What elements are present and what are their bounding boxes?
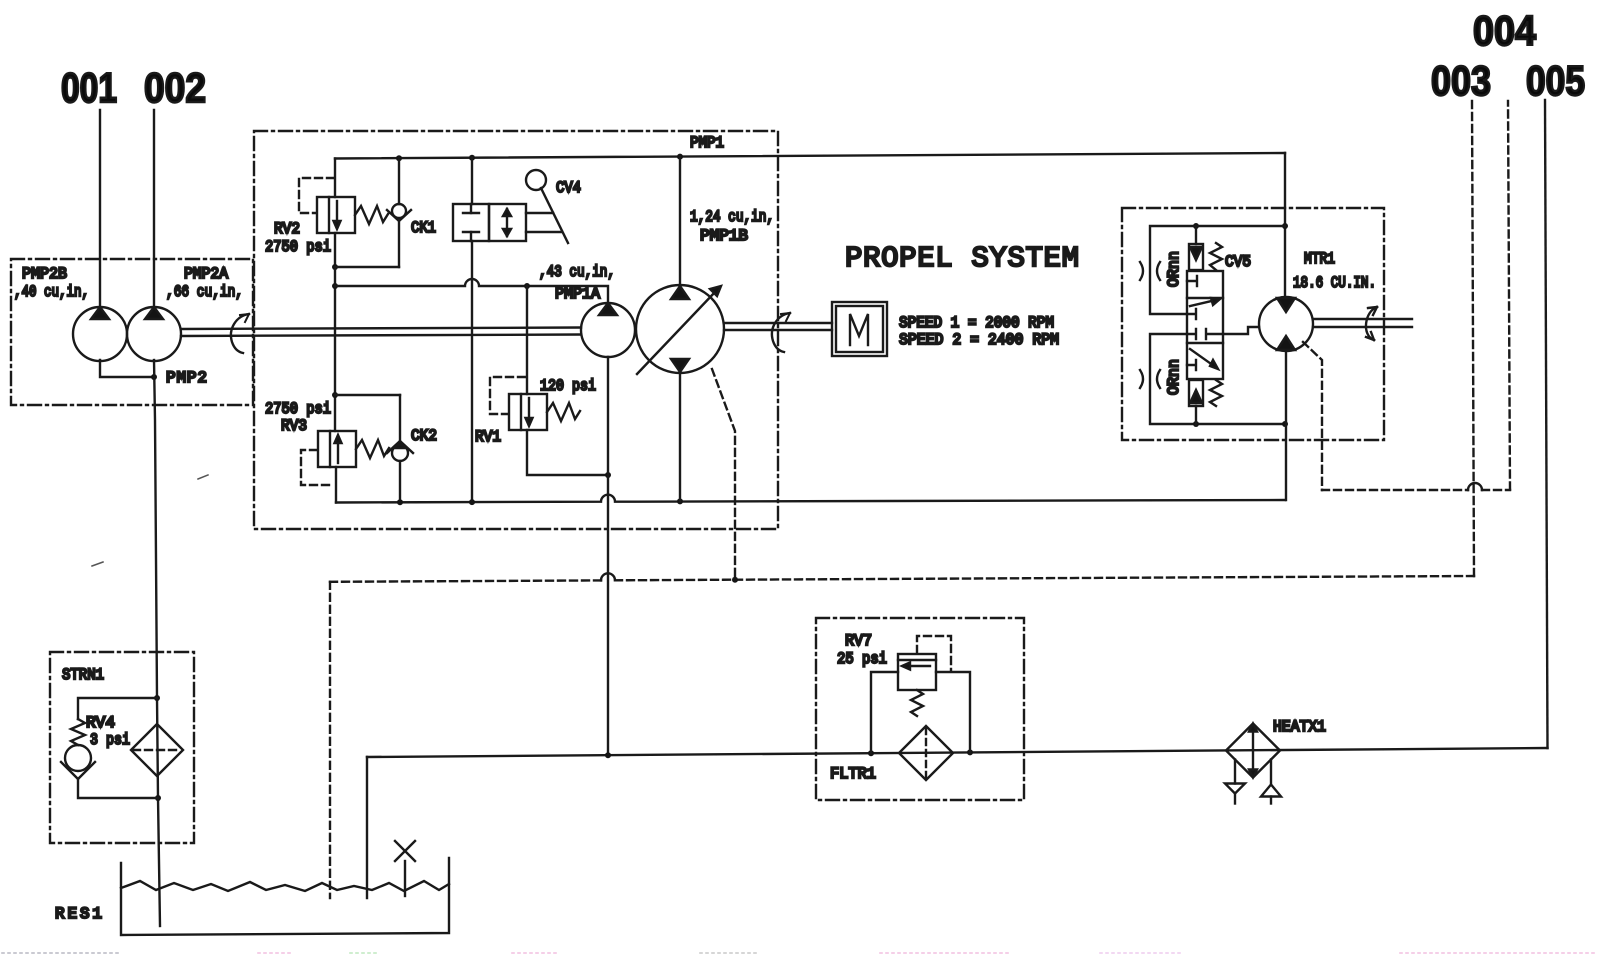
wire bottom rail with hop: [336, 495, 1285, 503]
wire ,43 cu,in, supply line with hop: [335, 279, 608, 303]
wire return line into tank: [366, 757, 368, 898]
scanner noise bottom pink dots 3: [880, 952, 1010, 954]
junction dot STRN1 top: [154, 695, 160, 701]
svg-text:RV7: RV7: [845, 632, 872, 650]
junction dot rail PMP1B: [677, 498, 683, 504]
junction dot return PMP1A drain: [605, 752, 611, 758]
scanner noise bottom pink dots 2: [512, 952, 560, 954]
valve CV5 top spring: [1210, 243, 1222, 270]
wire orifice loop lower: [1150, 334, 1285, 424]
junction dot PMP2 link: [151, 374, 157, 380]
junction dot top rail CK1: [396, 155, 402, 161]
stray scan mark 1: [198, 475, 208, 479]
wire motor feed vertical: [1284, 153, 1286, 297]
relief valve RV4 spring: [71, 719, 85, 745]
wire PMP1A drain vertical: [607, 357, 609, 755]
motor MTR1: [1259, 297, 1313, 351]
wire RV2 feed: [334, 159, 336, 198]
strainer diamond STRN1: [131, 724, 183, 776]
breather valve X symbol: [395, 841, 415, 861]
wire CK1 bottom link: [335, 266, 399, 268]
relief valve RV2 pilot dashed: [299, 178, 334, 213]
svg-text:004: 004: [1473, 7, 1537, 54]
junction dot CV5 check top: [1193, 223, 1199, 229]
scanner noise bottom pink dots 4: [1100, 952, 1180, 954]
heat exchanger left leg: [1234, 760, 1236, 784]
wire left vertical manifold: [334, 267, 336, 395]
reservoir liquid surface wavy line: [121, 881, 449, 891]
scanner noise bottom green dots: [350, 952, 380, 954]
relief valve RV3 body: [318, 431, 356, 467]
svg-text:001: 001: [61, 64, 117, 111]
valve CV5 check stem top: [1195, 226, 1197, 244]
enclosure PMP2 dash-dot box: [11, 259, 253, 405]
relief valve RV3 spring: [356, 440, 389, 458]
wire 001 line: [99, 110, 101, 308]
rotation arrow left shaft: [231, 314, 249, 353]
junction dot STRN1 bottom: [155, 795, 161, 801]
valve CV4 roller circle: [526, 170, 546, 190]
svg-text:STRN1: STRN1: [62, 666, 104, 684]
junction dot CK2 tap: [332, 392, 338, 398]
junction dot rail CK2: [397, 499, 403, 505]
valve CV5 body: [1187, 271, 1223, 379]
filter FLTR1 diamond: [899, 726, 953, 780]
svg-text:PMP1: PMP1: [690, 134, 724, 152]
pump PMP1B variable displacement: [636, 285, 724, 374]
valve CV5 check stem bottom: [1195, 406, 1197, 424]
relief valve RV7 spring: [911, 690, 923, 716]
svg-text:RV4: RV4: [86, 714, 115, 732]
enclosure MTR1 dash-dot box: [1122, 208, 1384, 440]
relief valve RV1 body: [509, 394, 547, 430]
junction dot CV5 check bottom: [1193, 421, 1199, 427]
orifice ORnn upper: [1140, 262, 1160, 280]
reservoir RES1 tank: [121, 858, 449, 935]
svg-text:18.6 CU.IN.: 18.6 CU.IN.: [1293, 274, 1376, 292]
svg-text:ORnn: ORnn: [1165, 359, 1183, 395]
wire RV2 outlet: [334, 233, 336, 267]
valve CV5 bottom check element: [1189, 380, 1203, 406]
motor shaft double line: [1313, 319, 1412, 327]
junction dot orifice loop top: [1282, 223, 1288, 229]
svg-text:PROPEL SYSTEM: PROPEL SYSTEM: [845, 242, 1079, 275]
wire PMP1B case drain dashed: [712, 369, 735, 580]
pump PMP2A: [127, 307, 181, 361]
svg-text:RV3: RV3: [281, 417, 307, 435]
heat exchanger right stem: [1270, 797, 1272, 804]
enclosure FLTR1 dash-dot box: [816, 618, 1024, 800]
check ball RV4: [65, 745, 91, 771]
wire 005 solid line: [1545, 100, 1548, 748]
wire RV7 right leg: [936, 672, 970, 752]
svg-text:PMP1A: PMP1A: [555, 285, 600, 303]
svg-text:PMP2: PMP2: [166, 369, 207, 387]
svg-text:CV5: CV5: [1225, 253, 1251, 271]
svg-text:RV2: RV2: [274, 220, 300, 238]
wire motor outlet vertical: [1285, 351, 1287, 500]
junction dot RV1 tap: [524, 283, 530, 289]
enclosure PMP1 dash-dot box: [254, 131, 778, 529]
heat exchanger right triangle up: [1261, 785, 1281, 797]
filter element dashed: [925, 728, 927, 778]
valve CV5 top check element: [1189, 244, 1203, 270]
pump PMP1A: [581, 303, 635, 357]
svg-text:HEATX1: HEATX1: [1273, 718, 1326, 736]
heat exchanger left triangle down: [1225, 784, 1245, 794]
svg-text:,66 cu,in,: ,66 cu,in,: [166, 283, 243, 301]
label M: [850, 314, 868, 345]
heat exchanger HEATX1 diamond: [1226, 724, 1280, 778]
wire PMP1B top stem: [679, 157, 681, 287]
svg-text:ORnn: ORnn: [1165, 251, 1183, 287]
junction dot orifice loop bottom: [1282, 421, 1288, 427]
wire main return line: [367, 748, 1548, 757]
wire CK1 stem bottom: [398, 221, 400, 267]
svg-text:SPEED 1 = 2000 RPM: SPEED 1 = 2000 RPM: [899, 314, 1054, 332]
wire 002 line: [153, 110, 155, 308]
wire RV3 outlet: [335, 467, 337, 503]
scanner noise bottom gray dots: [2, 952, 120, 954]
wire RV7 left leg: [871, 672, 898, 753]
wire orifice loop upper: [1150, 226, 1285, 314]
relief valve RV1 pilot dashed: [490, 377, 525, 414]
junction dot top rail CV4: [469, 155, 475, 161]
junction dot rail CV4: [469, 499, 475, 505]
heat exchanger right leg: [1270, 760, 1272, 785]
svg-text:RV1: RV1: [475, 428, 501, 446]
svg-text:SPEED 2 = 2400 RPM: SPEED 2 = 2400 RPM: [899, 331, 1059, 349]
check valve CK1: [387, 204, 411, 221]
svg-text:2750 psi: 2750 psi: [265, 238, 331, 256]
relief valve RV2 body: [317, 197, 355, 233]
rotation arrow right of PMP1B: [772, 313, 790, 352]
svg-text:CK1: CK1: [411, 219, 436, 237]
junction dot manifold at ,43 line: [332, 283, 338, 289]
svg-text:,43 cu,in,: ,43 cu,in,: [539, 263, 615, 281]
wire motor case drain dashed to 004: [1303, 101, 1510, 490]
valve CV4 actuator lines: [526, 212, 553, 214]
valve CV5 internals top cell: [1187, 276, 1197, 286]
wire manifold to RV3: [334, 395, 336, 431]
svg-text:PMP1B: PMP1B: [700, 227, 748, 245]
wire suction line to reservoir: [154, 360, 160, 926]
svg-text:1,24 cu,in,: 1,24 cu,in,: [690, 208, 774, 226]
svg-text:2750 psi: 2750 psi: [265, 400, 331, 418]
svg-text:PMP2A: PMP2A: [184, 265, 228, 283]
junction dot return filter right leg: [967, 749, 973, 755]
shaft PMP1B to motor box double line: [724, 323, 832, 330]
wire CV4 stem top: [471, 158, 473, 204]
svg-text:25 psi: 25 psi: [837, 650, 887, 668]
junction dot RV1 outlet: [605, 472, 611, 478]
svg-text:CK2: CK2: [411, 427, 437, 445]
svg-text:RES1: RES1: [55, 905, 102, 923]
scanner noise bottom pink dots 5: [1400, 952, 1595, 954]
wire PMP1B bottom stem: [679, 372, 681, 501]
svg-text:3 psi: 3 psi: [90, 731, 130, 749]
orifice ORnn lower: [1140, 370, 1160, 388]
valve CV5 internals middle arrow: [1187, 298, 1223, 339]
relief valve RV1 feed: [526, 286, 528, 394]
wire CK2 stem: [399, 395, 401, 442]
check valve CK2: [387, 441, 413, 461]
wire RV4 branch bottom: [78, 779, 158, 798]
stray scan mark 2: [92, 562, 103, 566]
strainer element dashed: [133, 749, 181, 751]
svg-text:120 psi: 120 psi: [540, 377, 596, 395]
motor box M outer: [832, 302, 887, 356]
wire CK1 stem top: [398, 158, 400, 204]
relief valve RV1 spring: [547, 403, 580, 421]
shaft PMP2A to PMP1A double line: [181, 328, 581, 337]
relief valve RV7 pilot dashed: [917, 636, 951, 671]
relief valve RV3 pilot dashed: [301, 450, 333, 485]
wire RV4 branch top: [78, 698, 157, 719]
valve CV4 body: [453, 204, 526, 241]
wire CV5 outlet step to motor: [1223, 327, 1259, 334]
junction dot top rail PMP1B: [677, 154, 683, 160]
svg-text:MTR1: MTR1: [1304, 250, 1335, 268]
pump PMP2B: [73, 307, 127, 361]
svg-text:PMP2B: PMP2B: [22, 265, 67, 283]
relief valve RV7 body: [898, 654, 936, 690]
breather stem: [404, 861, 406, 896]
relief valve RV2 spring: [355, 206, 388, 224]
wire 003 dashed line: [330, 101, 1474, 582]
wire CK2 outlet: [399, 461, 401, 502]
junction dot return filter left leg: [868, 750, 874, 756]
valve CV5 internals bottom diagonal arrow: [1187, 349, 1218, 370]
heat exchanger left stem: [1234, 794, 1236, 804]
strainer STRN1 enclosure: [50, 652, 194, 843]
svg-text:CV4: CV4: [556, 179, 581, 197]
wire PMP2B-PMP2A bottom link: [100, 360, 154, 377]
scanner noise bottom gray dots 2: [700, 952, 760, 954]
wire top rail: [335, 153, 1285, 159]
wire CV4 stem bottom: [471, 241, 473, 502]
scanner noise bottom pink dots 1: [258, 952, 292, 954]
motor box M inner: [836, 306, 883, 352]
svg-text:003: 003: [1431, 57, 1491, 104]
junction dot PMP1B drain on 003: [732, 577, 738, 583]
svg-text:005: 005: [1526, 57, 1585, 104]
check seat RV4: [61, 762, 95, 779]
wire 003 drain into tank dashed: [329, 582, 331, 898]
svg-text:FLTR1: FLTR1: [830, 765, 876, 783]
wire CK2 top link: [335, 394, 400, 396]
heat exchanger flow arrow: [1249, 724, 1257, 778]
valve CV4 roller lever: [541, 188, 568, 243]
junction dot RV2 outlet: [332, 264, 338, 270]
svg-text:,40 cu,in,: ,40 cu,in,: [14, 283, 89, 301]
valve CV5 bottom spring: [1210, 380, 1222, 406]
svg-text:002: 002: [144, 64, 206, 111]
rotation arrow motor shaft: [1366, 307, 1377, 340]
wire RV1 outlet: [527, 430, 608, 475]
